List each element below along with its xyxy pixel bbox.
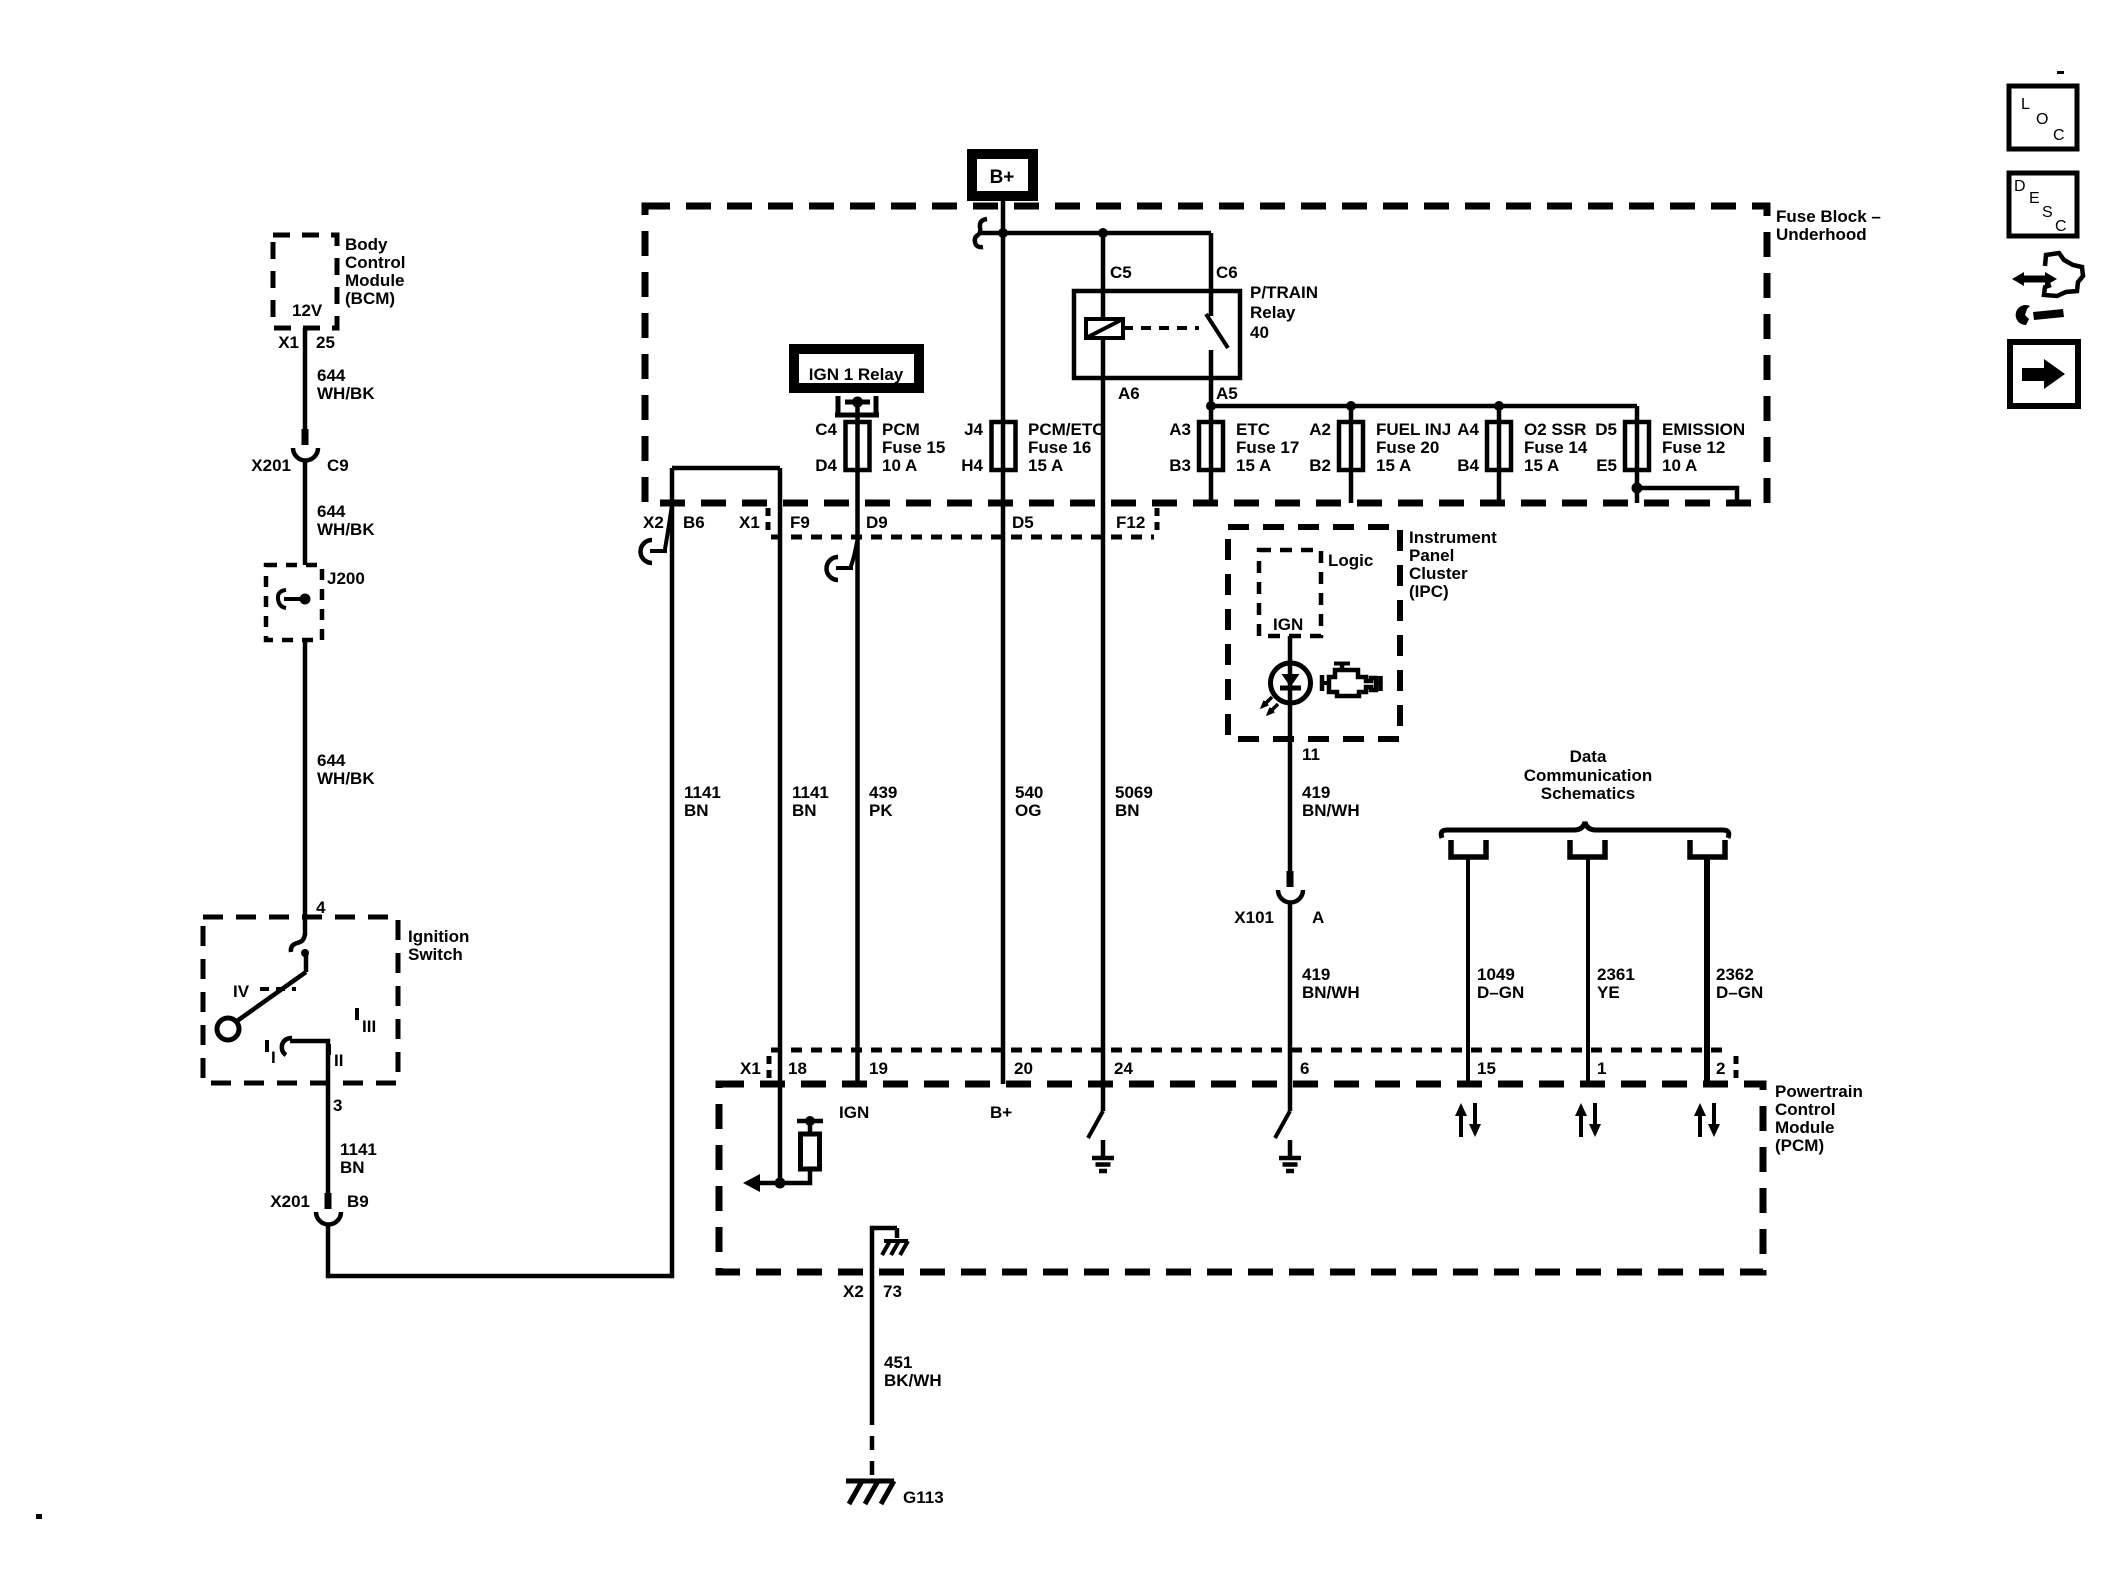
data arrows at pin 1 [1575,1103,1601,1137]
PCM internal pull-up resistor at pin 18 [780,1116,823,1183]
wire 1141 BN (X201 B9 to fuse block X2 B6) [328,468,721,1276]
svg-text:J4: J4 [964,420,983,439]
svg-text:Module: Module [1775,1118,1835,1137]
hook connector at X2 B6 [650,505,672,551]
wire 644 WH/BK (BCM to X201) [305,328,375,431]
svg-text:B+: B+ [990,1103,1012,1122]
wire 1141 BN (fuse block X1 F9 to PCM pin 18) [780,468,829,1183]
svg-text:11: 11 [1302,745,1320,764]
Instrument Panel Cluster (IPC) box [1228,527,1497,739]
svg-text:PCM/ETC: PCM/ETC [1028,420,1105,439]
data receptacle 3 [1690,840,1725,857]
svg-text:S: S [2042,204,2053,221]
wire B+ vertical (to PCM pin 20) [1001,196,1006,1084]
svg-text:X201: X201 [270,1192,310,1211]
svg-text:4: 4 [316,898,326,917]
PCM internal chassis ground at X2 73 [872,1228,908,1272]
svg-text:644: 644 [317,751,346,770]
svg-text:Control: Control [1775,1100,1835,1119]
svg-text:1141: 1141 [792,783,829,802]
relay switch C6 to A5 [1206,233,1228,422]
svg-text:2361: 2361 [1597,965,1635,984]
svg-text:Body: Body [345,235,388,254]
svg-text:15 A: 15 A [1236,456,1271,475]
svg-text:X1: X1 [740,1059,761,1078]
svg-text:644: 644 [317,366,346,385]
svg-text:FUEL INJ: FUEL INJ [1376,420,1451,439]
Fuse Block - Underhood box [645,206,1881,503]
svg-text:Relay: Relay [1250,303,1296,322]
wire 5069 BN (relay A6 to PCM pin 24) [1103,338,1153,1084]
data arrows at pin 15 [1455,1103,1481,1137]
ignition switch pin 4 contact [291,917,309,957]
Powertrain Control Module (PCM) box [719,1082,1863,1272]
wire 2362 D-GN (to PCM pin 2) [1707,857,1763,1084]
Data Communication Schematics label [1524,747,1652,803]
svg-text:X2: X2 [643,513,664,532]
PCM internal switch to ground at pin 6 [1275,1084,1301,1171]
svg-text:D4: D4 [815,456,837,475]
svg-text:IGN 1 Relay: IGN 1 Relay [809,365,904,384]
fuse block pin labels X2 B6 X1 F9 D9 D5 F12 [643,513,1145,532]
svg-text:X1: X1 [278,333,299,352]
svg-text:C6: C6 [1216,263,1238,282]
svg-text:IGN: IGN [1273,615,1303,634]
svg-text:III: III [362,1017,376,1036]
fuse ETC Fuse 17 15A [1169,420,1299,503]
connector X201 B9 [270,1192,368,1225]
svg-text:BK/WH: BK/WH [884,1371,942,1390]
svg-text:BN: BN [792,801,817,820]
svg-text:ETC: ETC [1236,420,1270,439]
wire 644 WH/BK (J200 to ignition switch) [305,640,375,917]
svg-text:F12: F12 [1116,513,1145,532]
hook connector at D9 [836,542,857,568]
svg-text:15 A: 15 A [1524,456,1559,475]
stray mark top right [2057,71,2064,74]
PCM internal switch to ground at pin 24 [1088,1084,1114,1171]
ignition switch rotor blade [217,953,306,1040]
connector X101 A [1234,871,1324,927]
wire 419 BN/WH (X101 to PCM pin 6) [1290,901,1360,1084]
svg-text:X101: X101 [1234,908,1274,927]
svg-text:A4: A4 [1457,420,1479,439]
svg-text:D5: D5 [1595,420,1617,439]
svg-text:2: 2 [1716,1059,1725,1078]
svg-text:(BCM): (BCM) [345,289,395,308]
IGN 1 Relay label box [794,349,919,388]
check engine MIL icon [1322,664,1381,697]
svg-text:J200: J200 [327,569,365,588]
svg-text:Panel: Panel [1409,546,1454,565]
ignition switch contact II output [282,1038,328,1083]
svg-text:A2: A2 [1309,420,1331,439]
P/TRAIN Relay 40 box [1074,283,1318,378]
svg-text:F9: F9 [790,513,810,532]
svg-text:10 A: 10 A [1662,456,1697,475]
wire 1049 D-GN (to PCM pin 15) [1468,857,1524,1084]
svg-text:C: C [2055,218,2067,235]
svg-text:D5: D5 [1012,513,1034,532]
svg-text:Fuse 20: Fuse 20 [1376,438,1439,457]
svg-text:WH/BK: WH/BK [317,520,375,539]
ignition switch position II [329,1044,343,1070]
svg-text:B+: B+ [990,167,1015,188]
fuse FUEL INJ Fuse 20 15A [1309,420,1451,503]
svg-text:E: E [2029,190,2040,207]
svg-text:15: 15 [1477,1059,1496,1078]
svg-text:1: 1 [1597,1059,1606,1078]
svg-text:1141: 1141 [684,783,721,802]
data receptacle 1 [1451,840,1486,857]
IGN 1 relay output terminal [835,396,879,422]
svg-text:5069: 5069 [1115,783,1153,802]
svg-text:1049: 1049 [1477,965,1515,984]
svg-text:Fuse 15: Fuse 15 [882,438,945,457]
svg-text:L: L [2021,96,2030,113]
svg-text:A6: A6 [1118,384,1140,403]
svg-text:PCM: PCM [882,420,920,439]
svg-text:B6: B6 [683,513,705,532]
svg-text:D9: D9 [866,513,888,532]
svg-text:(PCM): (PCM) [1775,1136,1824,1155]
svg-text:A3: A3 [1169,420,1191,439]
wire IGN to indicator [1288,636,1293,739]
PCM X1 connector line [769,1050,1736,1078]
BCM pin X1 25 [278,333,335,352]
stray mark bottom left [36,1514,42,1519]
wire 644 WH/BK (X201 to J200) [305,459,375,565]
svg-text:Communication: Communication [1524,766,1652,785]
svg-text:Ignition: Ignition [408,927,469,946]
relay pin labels C5 C6 A6 A5 [1110,263,1238,403]
svg-text:73: 73 [883,1282,902,1301]
svg-text:I: I [271,1048,276,1067]
svg-text:10 A: 10 A [882,456,917,475]
svg-text:II: II [334,1051,343,1070]
fuse bus from relay A5 [1206,401,1637,422]
emission fuse output wires [1632,470,1738,503]
svg-text:WH/BK: WH/BK [317,384,375,403]
brace [1441,822,1729,838]
svg-text:Fuse 17: Fuse 17 [1236,438,1299,457]
wire 1141 BN (ignition switch pin 3) [328,1083,377,1196]
fuse PCM Fuse 15 10A [815,420,945,475]
svg-text:2362: 2362 [1716,965,1754,984]
svg-text:C: C [2053,127,2065,144]
svg-text:6: 6 [1300,1059,1309,1078]
svg-text:439: 439 [869,783,897,802]
PCM pin X2 73 labels [843,1282,902,1301]
svg-text:15 A: 15 A [1376,456,1411,475]
wire 439 PK (fuse 15 to PCM pin 19) [858,470,898,1084]
relay actuation dashed line [1123,326,1199,330]
svg-text:WH/BK: WH/BK [317,769,375,788]
connector X201 C9 [251,429,348,475]
svg-text:E5: E5 [1596,456,1617,475]
data arrows at pin 2 [1694,1103,1720,1137]
svg-text:540: 540 [1015,783,1043,802]
svg-text:D–GN: D–GN [1716,983,1763,1002]
svg-text:B9: B9 [347,1192,369,1211]
Body Control Module (BCM) box [273,235,405,328]
wire 451 BK/WH [872,1272,942,1480]
svg-text:644: 644 [317,502,346,521]
internal bus 1141 in fuse block [672,466,780,471]
fuse EMISSION Fuse 12 10A [1595,420,1745,475]
arrow icon [2010,342,2078,406]
svg-text:D: D [2014,178,2026,195]
PCM internal arrow at pin 18 [743,1174,786,1192]
svg-text:O2 SSR: O2 SSR [1524,420,1586,439]
ignition switch position I [267,1040,276,1067]
svg-text:X2: X2 [843,1282,864,1301]
svg-text:1141: 1141 [340,1140,377,1159]
svg-text:(IPC): (IPC) [1409,582,1449,601]
wire 2361 YE (to PCM pin 1) [1588,857,1635,1084]
svg-text:25: 25 [316,333,335,352]
svg-text:Data: Data [1570,747,1607,766]
svg-text:Fuse 14: Fuse 14 [1524,438,1588,457]
svg-text:Fuse 16: Fuse 16 [1028,438,1091,457]
svg-text:20: 20 [1014,1059,1033,1078]
svg-text:PK: PK [869,801,893,820]
svg-text:IV: IV [233,982,250,1001]
svg-text:Fuse 12: Fuse 12 [1662,438,1725,457]
Logic box in IPC [1259,550,1373,636]
svg-text:Switch: Switch [408,945,463,964]
svg-text:D–GN: D–GN [1477,983,1524,1002]
ignition switch position IV [233,982,296,1001]
wire 419 BN/WH (IPC pin 11 to X101) [1290,739,1360,872]
svg-text:YE: YE [1597,983,1620,1002]
svg-text:C9: C9 [327,456,349,475]
svg-text:B2: B2 [1309,456,1331,475]
svg-text:G113: G113 [903,1488,944,1507]
svg-text:Instrument: Instrument [1409,528,1497,547]
communication icon (arrows, outline, wrench) [2012,253,2083,325]
svg-text:IGN: IGN [839,1103,869,1122]
svg-text:19: 19 [869,1059,888,1078]
indicator LED [1263,663,1311,713]
svg-text:Powertrain: Powertrain [1775,1082,1863,1101]
svg-text:X201: X201 [251,456,291,475]
svg-text:C4: C4 [815,420,837,439]
PCM pin labels [740,1059,1725,1078]
svg-text:BN: BN [684,801,709,820]
svg-text:BN: BN [1115,801,1140,820]
DESC icon [2009,173,2077,236]
svg-text:B3: B3 [1169,456,1191,475]
LOC icon [2009,86,2077,149]
fuse PCM/ETC Fuse 16 15A [961,420,1104,475]
wire B+ bus to relay [980,228,1211,238]
svg-text:A5: A5 [1216,384,1238,403]
svg-text:24: 24 [1114,1059,1133,1078]
ground G113 [846,1481,944,1507]
svg-text:EMISSION: EMISSION [1662,420,1745,439]
svg-text:O: O [2036,111,2048,128]
svg-text:A: A [1312,908,1324,927]
svg-text:12V: 12V [292,301,323,320]
svg-text:40: 40 [1250,323,1269,342]
svg-text:H4: H4 [961,456,983,475]
svg-text:451: 451 [884,1353,912,1372]
svg-text:Control: Control [345,253,405,272]
svg-text:419: 419 [1302,783,1330,802]
svg-text:Schematics: Schematics [1541,784,1636,803]
fuse O2 SSR Fuse 14 15A [1457,420,1588,503]
relay coil [1086,233,1123,338]
svg-text:Cluster: Cluster [1409,564,1468,583]
svg-text:P/TRAIN: P/TRAIN [1250,283,1318,302]
svg-text:18: 18 [788,1059,807,1078]
svg-text:Logic: Logic [1328,551,1373,570]
ignition switch position III [357,1008,376,1036]
Ignition Switch box [203,917,469,1083]
svg-text:419: 419 [1302,965,1330,984]
svg-text:BN/WH: BN/WH [1302,983,1360,1002]
svg-text:BN/WH: BN/WH [1302,801,1360,820]
svg-text:Fuse Block –: Fuse Block – [1776,207,1881,226]
svg-text:X1: X1 [739,513,760,532]
svg-text:BN: BN [340,1158,365,1177]
wire 540 OG (fuse 16 to PCM pin 20) [1015,783,1043,820]
svg-text:B4: B4 [1457,456,1479,475]
data receptacle 2 [1570,840,1605,857]
svg-text:3: 3 [333,1096,342,1115]
PCM internal labels IGN B+ [839,1103,1012,1122]
svg-text:Module: Module [345,271,405,290]
svg-text:C5: C5 [1110,263,1132,282]
B+ power symbol [972,154,1033,196]
svg-text:15 A: 15 A [1028,456,1063,475]
hook connector B+ feed in fuse block [975,219,987,247]
fuse block X1 connector line [768,508,1157,537]
splice J200 [266,565,365,640]
svg-text:Underhood: Underhood [1776,225,1867,244]
svg-text:OG: OG [1015,801,1041,820]
